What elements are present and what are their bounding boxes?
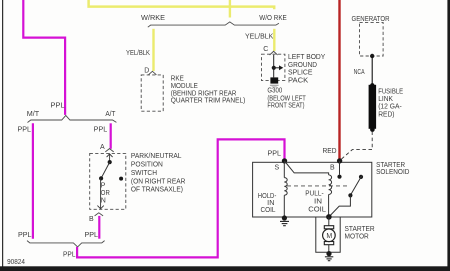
svg-text:90824: 90824 <box>7 259 25 266</box>
svg-text:PPL: PPL <box>94 127 108 134</box>
contact node fixed <box>359 175 363 179</box>
park/neutral position switch dashed box <box>90 153 126 209</box>
svg-text:G300: G300 <box>267 88 282 95</box>
svg-text:W/O RKE: W/O RKE <box>259 15 287 22</box>
ground hatch under G300 <box>270 84 279 86</box>
wire PPL to starter solenoid S <box>77 139 284 257</box>
mechanical linkage dashed <box>287 185 349 187</box>
starter solenoid box <box>253 162 372 217</box>
svg-text:SPLICE: SPLICE <box>288 70 313 77</box>
blade pivot node <box>348 193 352 197</box>
splice pack dashed box <box>262 54 285 80</box>
terminal chevron D <box>148 71 156 75</box>
terminal chevron A <box>105 149 113 152</box>
svg-text:RED): RED) <box>378 112 394 119</box>
svg-text:HOLD-: HOLD- <box>258 193 277 200</box>
wire pull-in coil to junction <box>328 195 330 216</box>
svg-text:B: B <box>330 165 335 172</box>
splice junction node <box>272 66 276 70</box>
svg-text:YEL/BLK: YEL/BLK <box>245 33 274 40</box>
generator output node <box>370 54 374 58</box>
ground (starter motor) <box>326 251 331 256</box>
hold-in coil <box>284 178 287 196</box>
generator dashed box <box>360 22 384 56</box>
svg-text:PPL: PPL <box>51 103 65 110</box>
switch A entry arrow <box>107 154 113 157</box>
svg-text:GROUND: GROUND <box>288 62 317 69</box>
svg-text:QUARTER TRIM PANEL): QUARTER TRIM PANEL) <box>171 98 246 105</box>
fusible link element <box>370 83 374 87</box>
wire PPL A/T leg <box>110 123 112 149</box>
wire YEL/BLK to splice pack <box>273 29 275 51</box>
wire PPL M/T leg <box>32 123 34 238</box>
svg-text:PACK: PACK <box>288 78 309 85</box>
ground (hold-in coil) <box>282 215 287 220</box>
terminal chevron C <box>270 51 278 55</box>
svg-text:FUSIBLE: FUSIBLE <box>378 88 403 95</box>
wire S to pull-in coil <box>285 161 329 175</box>
svg-text:RKE: RKE <box>171 76 184 83</box>
svg-text:POSITION: POSITION <box>131 162 163 169</box>
wire motor to ground <box>328 245 330 252</box>
wire B to contact <box>339 161 341 175</box>
starter motor enclosure <box>316 217 340 252</box>
frame left border <box>2 0 3 271</box>
svg-text:PULL-: PULL- <box>305 191 324 198</box>
svg-text:(BELOW LEFT: (BELOW LEFT <box>267 96 306 103</box>
svg-text:M: M <box>326 233 332 240</box>
RKE module dashed box <box>141 75 163 111</box>
wire hold-in coil to ground <box>283 195 285 216</box>
wire PPL B leg <box>98 216 100 239</box>
svg-text:PPL: PPL <box>85 232 99 239</box>
svg-text:C: C <box>263 46 268 53</box>
svg-text:FRONT SEAT): FRONT SEAT) <box>267 103 304 110</box>
contact node B side <box>337 175 341 179</box>
svg-text:OF TRANSAXLE): OF TRANSAXLE) <box>131 186 183 193</box>
switch pivot node P/N <box>99 176 103 180</box>
svg-text:A/T: A/T <box>105 111 116 118</box>
splice branch arrow <box>274 67 279 69</box>
svg-text:PPL: PPL <box>18 127 32 134</box>
svg-text:M/T: M/T <box>27 111 40 118</box>
svg-text:W/RKE: W/RKE <box>141 15 165 22</box>
svg-text:(BEHIND RIGHT REAR: (BEHIND RIGHT REAR <box>171 90 237 97</box>
wire RED battery feed <box>338 0 340 159</box>
svg-text:PARK/NEUTRAL: PARK/NEUTRAL <box>131 153 182 160</box>
svg-text:S: S <box>275 165 280 172</box>
brace M/T A/T split <box>28 115 117 122</box>
svg-text:YEL/BLK: YEL/BLK <box>126 50 150 57</box>
wire YEL center drop <box>229 0 231 18</box>
svg-text:LEFT BODY: LEFT BODY <box>288 54 326 61</box>
motor commutator top <box>324 226 333 229</box>
wire junction to motor <box>328 217 330 226</box>
solenoid switch blade <box>350 176 361 196</box>
switch B exit arrowhead <box>97 206 103 209</box>
svg-text:NCA: NCA <box>354 69 365 76</box>
frame right border <box>447 0 450 271</box>
svg-text:RED: RED <box>323 148 337 155</box>
svg-text:LINK: LINK <box>378 96 393 103</box>
svg-text:PPL: PPL <box>63 251 76 258</box>
svg-text:(12 GA-: (12 GA- <box>378 104 402 111</box>
motor commutator bottom <box>324 242 333 245</box>
svg-text:(ON RIGHT REAR: (ON RIGHT REAR <box>131 178 186 185</box>
node S <box>282 158 287 163</box>
switch alternate contact node <box>119 177 123 181</box>
dashed NCA connection to red wire <box>341 132 372 160</box>
svg-text:STARTER: STARTER <box>376 162 405 169</box>
svg-text:P: P <box>101 182 106 189</box>
svg-text:MOTOR: MOTOR <box>345 233 369 240</box>
svg-text:SWITCH: SWITCH <box>131 170 157 177</box>
svg-text:PPL: PPL <box>268 150 282 157</box>
wire PPL main feed from top left <box>23 0 65 115</box>
svg-text:STARTER: STARTER <box>345 226 375 233</box>
brace W/RKE W/O RKE split <box>148 22 279 27</box>
svg-text:SOLENOID: SOLENOID <box>376 169 409 176</box>
brace merge to single PPL <box>27 241 105 247</box>
svg-text:B: B <box>89 216 94 223</box>
svg-text:N: N <box>101 198 106 205</box>
motor M circle <box>323 229 336 242</box>
svg-text:COIL: COIL <box>261 207 276 214</box>
ground attachment G300 square <box>270 77 278 83</box>
switch contact node A <box>108 160 112 164</box>
pull-in coil <box>329 175 332 195</box>
wire S to hold-in coil <box>283 161 285 178</box>
switch blade <box>101 162 110 178</box>
junction node to motor <box>326 214 332 220</box>
switch exit line to B <box>100 178 102 208</box>
splice pack internal wire <box>273 55 275 78</box>
wire YEL/BLK to RKE module <box>152 29 154 71</box>
svg-text:D: D <box>144 68 149 75</box>
svg-text:MODULE: MODULE <box>171 83 198 90</box>
svg-text:OR: OR <box>101 190 110 197</box>
terminal chevron B <box>95 213 104 216</box>
wire YEL feed from top <box>89 0 275 9</box>
frame bottom bar <box>0 266 450 271</box>
svg-text:PPL: PPL <box>18 232 32 239</box>
svg-text:COIL: COIL <box>308 207 326 214</box>
blade tail to junction <box>329 195 351 217</box>
wire generator to fusible link <box>371 56 373 85</box>
node B <box>337 158 342 163</box>
svg-text:IN: IN <box>314 198 322 205</box>
svg-text:A: A <box>100 144 105 151</box>
